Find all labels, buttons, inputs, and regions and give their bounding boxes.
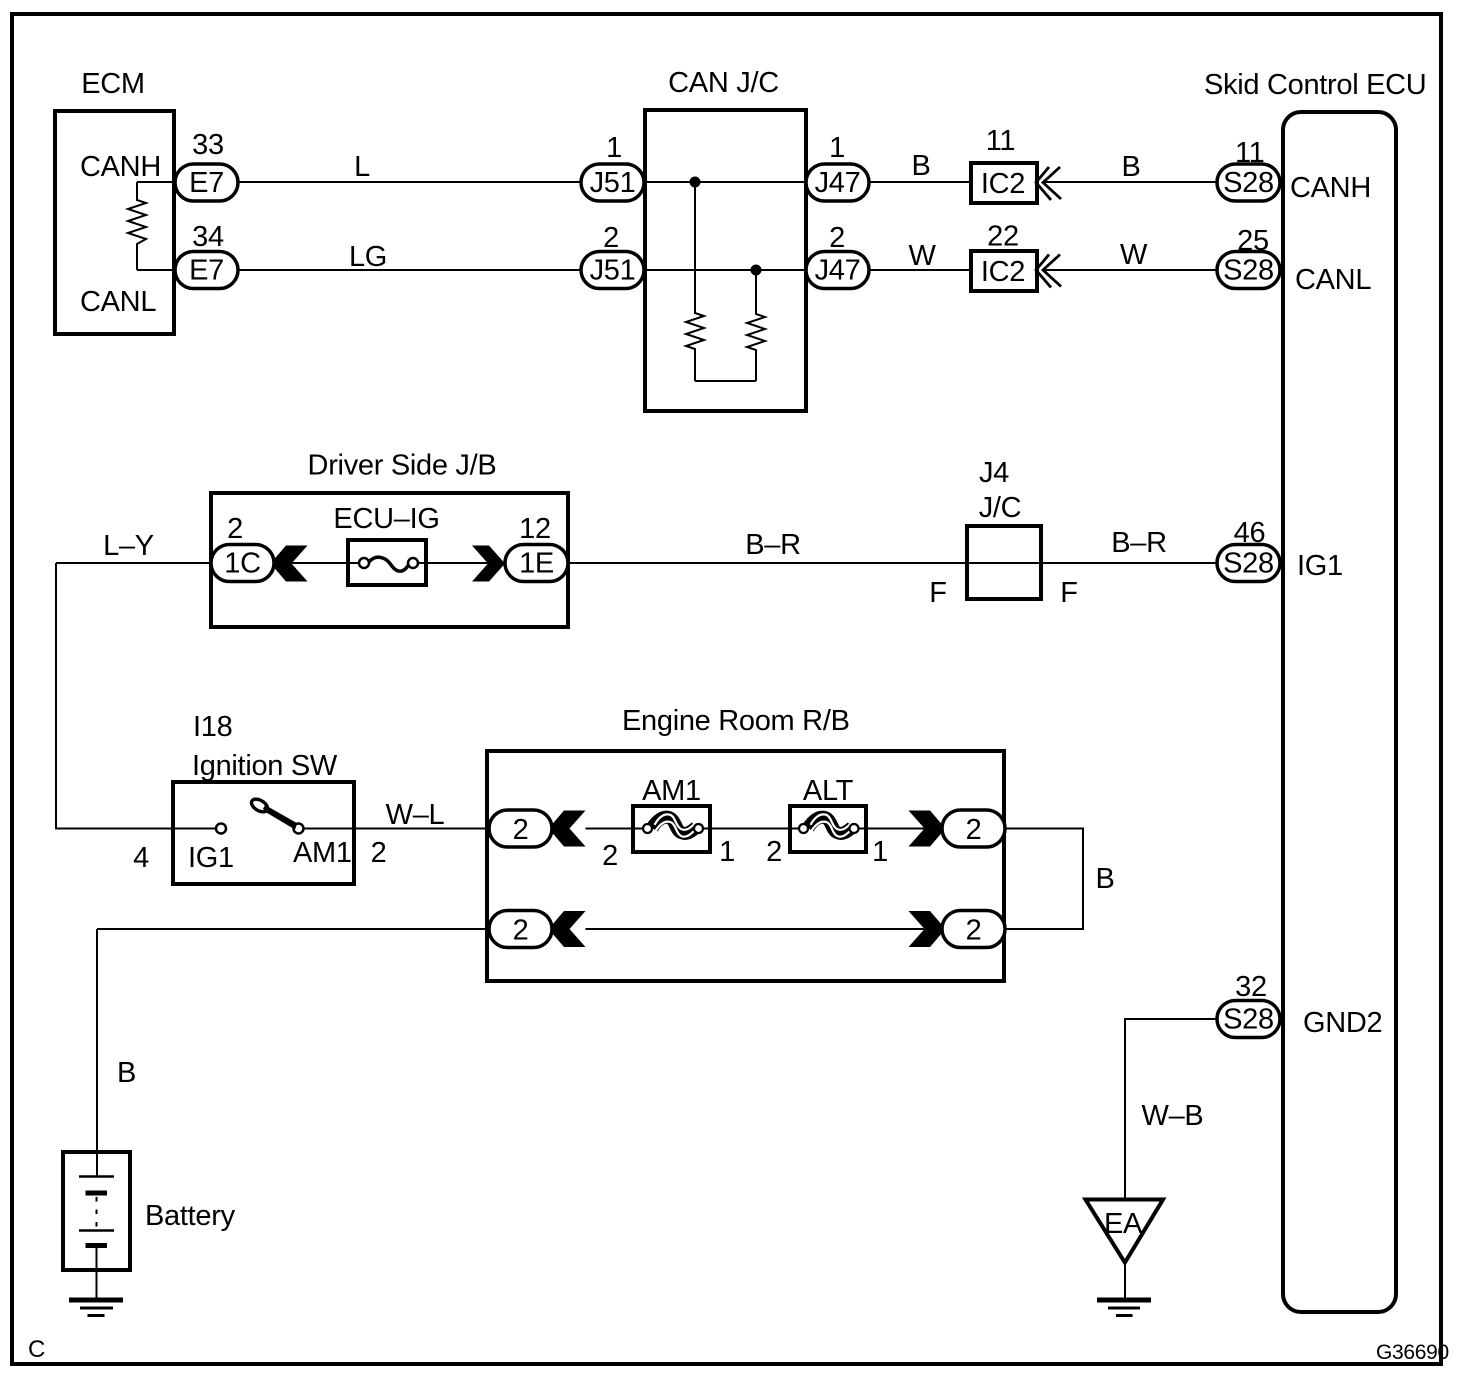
svg-text:25: 25 xyxy=(1237,225,1269,257)
svg-text:Driver Side J/B: Driver Side J/B xyxy=(308,450,497,482)
wire CANL: J51-2 through CAN J/C to J47-2 xyxy=(581,269,869,271)
wire from battery branch to row2 connector xyxy=(97,928,548,930)
svg-text:1: 1 xyxy=(829,132,845,164)
ground triangle EA xyxy=(1086,1200,1164,1263)
wire joining resistors xyxy=(695,380,756,382)
svg-text:E7: E7 xyxy=(189,255,224,287)
svg-text:AM1: AM1 xyxy=(293,837,352,869)
chevron at 1C (points left) xyxy=(271,546,308,582)
fusible link ALT element xyxy=(808,814,852,836)
connector 2 row1 right xyxy=(942,810,1005,847)
svg-text:2: 2 xyxy=(766,836,782,868)
Engine Room R/B box xyxy=(487,751,1004,981)
node: junction dot on CANH inside CAN J/C xyxy=(690,177,701,188)
wire B: down to battery xyxy=(96,929,98,1176)
chevron row2 left (points left) xyxy=(549,911,586,947)
J4 J/C box xyxy=(967,526,1041,599)
connector J51 pin 2 xyxy=(581,252,644,289)
svg-text:J47: J47 xyxy=(815,167,861,199)
svg-text:B: B xyxy=(1121,151,1140,183)
connector S28 pin 25 xyxy=(1217,252,1280,289)
svg-text:F: F xyxy=(929,577,946,609)
wire battery to ground xyxy=(96,1248,98,1298)
svg-text:2: 2 xyxy=(371,837,387,869)
battery dashed link xyxy=(96,1197,98,1229)
wire CANL: ECM E7-34 to J51-2 (LG) xyxy=(137,269,581,271)
wire AM1 to ALT xyxy=(703,828,800,830)
svg-text:S28: S28 xyxy=(1223,167,1274,199)
battery plate short thick bottom xyxy=(86,1243,108,1248)
svg-text:CANL: CANL xyxy=(1295,264,1371,296)
wire ALT to row1 right connector xyxy=(859,828,946,830)
wire L-Y vertical down to ignition switch xyxy=(56,563,216,829)
connector J47 pin 2 xyxy=(806,252,869,289)
connector E7 pin 34 xyxy=(175,252,238,289)
svg-text:J/C: J/C xyxy=(979,492,1022,524)
chevron row1 left (points left) xyxy=(549,811,586,847)
connector 1E pin 12 xyxy=(505,545,568,582)
wire W: J47-2 to IC2-22 xyxy=(869,269,971,271)
wire from fuse to S28-46 (B-R) xyxy=(417,562,1217,564)
svg-text:S28: S28 xyxy=(1223,255,1274,287)
svg-text:F: F xyxy=(1060,577,1077,609)
svg-text:J51: J51 xyxy=(590,255,636,287)
ignition switch I18 box xyxy=(173,782,354,884)
svg-text:12: 12 xyxy=(519,513,551,545)
wire W-B: S28-32 to EA ground xyxy=(1125,1019,1217,1198)
CAN J/C box xyxy=(645,110,806,411)
IC2 connector 11 box xyxy=(971,163,1037,203)
battery plate long bottom xyxy=(79,1229,114,1232)
ground symbol below EA xyxy=(1097,1298,1151,1303)
fusible link ALT terminal circles xyxy=(799,824,808,833)
wire CANH: ECM E7-33 to J51-1 (L) xyxy=(137,181,581,183)
svg-text:2: 2 xyxy=(966,915,982,947)
svg-text:IC2: IC2 xyxy=(981,256,1025,288)
wire B: row1 right to row2 right xyxy=(1005,829,1083,930)
svg-text:2: 2 xyxy=(227,513,243,545)
svg-text:E7: E7 xyxy=(189,167,224,199)
svg-text:CANH: CANH xyxy=(1290,172,1371,204)
svg-text:1: 1 xyxy=(719,836,735,868)
chevron row2 right (points right) xyxy=(909,911,946,947)
svg-text:32: 32 xyxy=(1235,971,1267,1003)
svg-text:2: 2 xyxy=(829,222,845,254)
switch lever xyxy=(264,807,297,826)
svg-text:IG1: IG1 xyxy=(188,842,234,874)
svg-text:LG: LG xyxy=(349,241,387,273)
svg-text:GND2: GND2 xyxy=(1303,1007,1382,1039)
svg-text:S28: S28 xyxy=(1223,1004,1274,1036)
svg-text:2: 2 xyxy=(603,222,619,254)
svg-text:B–R: B–R xyxy=(745,529,801,561)
svg-text:J47: J47 xyxy=(815,255,861,287)
svg-text:I18: I18 xyxy=(193,711,232,743)
wire B: J47-1 to IC2-11 xyxy=(869,181,971,183)
connector S28 pin 11 xyxy=(1217,164,1280,201)
svg-text:G36690: G36690 xyxy=(1376,1341,1449,1364)
fuse element xyxy=(369,557,409,571)
wire EA triangle to ground xyxy=(1124,1263,1126,1298)
wire row2 inside R/B xyxy=(586,928,925,930)
wire W: IC2-22 to S28-25 xyxy=(1043,269,1218,271)
svg-text:1: 1 xyxy=(606,132,622,164)
svg-text:Skid Control ECU: Skid Control ECU xyxy=(1204,69,1426,101)
terminating resistor inside ECM xyxy=(128,182,146,270)
connector 2 row2 right xyxy=(942,911,1005,948)
svg-text:B: B xyxy=(911,150,930,182)
svg-text:ECU–IG: ECU–IG xyxy=(333,503,439,535)
battery box xyxy=(63,1152,130,1270)
svg-text:L–Y: L–Y xyxy=(103,530,154,562)
svg-text:ALT: ALT xyxy=(803,775,854,807)
IC2-22 chevron xyxy=(1036,255,1061,288)
connector 2 row1 left xyxy=(489,810,552,847)
wire chevron to AM1 fuse xyxy=(586,828,645,830)
svg-text:J51: J51 xyxy=(590,167,636,199)
fuse terminal circle left xyxy=(359,558,369,568)
connector J51 pin 1 xyxy=(581,164,644,201)
wire CANH: J51-1 through CAN J/C to J47-1 xyxy=(581,181,869,183)
connector 2 row2 left xyxy=(489,911,552,948)
svg-text:C: C xyxy=(28,1336,45,1363)
svg-text:11: 11 xyxy=(986,125,1016,157)
IC2-11 chevron xyxy=(1036,167,1061,200)
switch contact AM1 xyxy=(294,824,304,834)
svg-text:2: 2 xyxy=(966,814,982,846)
svg-text:B–R: B–R xyxy=(1111,527,1167,559)
chevron row1 right (points right) xyxy=(909,811,946,847)
svg-text:33: 33 xyxy=(192,129,224,161)
connector J47 pin 1 xyxy=(806,164,869,201)
svg-text:EA: EA xyxy=(1104,1208,1143,1240)
svg-text:22: 22 xyxy=(987,221,1019,253)
svg-text:11: 11 xyxy=(1235,137,1265,169)
svg-text:W: W xyxy=(908,240,936,272)
IC2 connector 22 box xyxy=(971,251,1037,291)
connector S28 pin 32 xyxy=(1217,1001,1280,1038)
wire L-Y horizontal into Driver Side J/B xyxy=(56,562,358,564)
svg-text:CANL: CANL xyxy=(80,286,156,318)
svg-text:CANH: CANH xyxy=(80,151,161,183)
node: junction dot on CANL inside CAN J/C xyxy=(751,265,762,276)
fuse terminal circle right xyxy=(408,558,418,568)
connector E7 pin 33 xyxy=(175,164,238,201)
svg-text:Engine Room R/B: Engine Room R/B xyxy=(622,705,850,737)
svg-text:ECM: ECM xyxy=(81,68,145,100)
resistor 1 inside CAN J/C xyxy=(686,182,704,381)
svg-text:B: B xyxy=(117,1057,136,1089)
Driver Side J/B box xyxy=(211,493,568,627)
svg-text:4: 4 xyxy=(133,842,149,874)
svg-text:W–B: W–B xyxy=(1142,1100,1204,1132)
fusible link AM1 element xyxy=(652,814,696,836)
svg-text:AM1: AM1 xyxy=(642,775,701,807)
battery plate short thick xyxy=(86,1191,108,1196)
wire B: IC2-11 to S28-11 xyxy=(1043,181,1218,183)
switch contact IG1 xyxy=(216,824,226,834)
connector 1C pin 2 xyxy=(211,545,274,582)
chevron before 1E (points right) xyxy=(472,546,505,582)
resistor 2 inside CAN J/C xyxy=(747,270,765,381)
battery plate long top xyxy=(79,1175,114,1178)
svg-text:IC2: IC2 xyxy=(981,168,1025,200)
svg-text:S28: S28 xyxy=(1223,548,1274,580)
fusible link AM1 terminal circles xyxy=(643,824,652,833)
wire W-L: switch AM1 to Engine Room R/B xyxy=(304,828,549,830)
svg-text:1: 1 xyxy=(872,836,888,868)
ground symbol below battery xyxy=(69,1298,123,1303)
svg-text:IG1: IG1 xyxy=(1297,550,1343,582)
svg-text:L: L xyxy=(354,151,370,183)
svg-text:W: W xyxy=(1120,239,1148,271)
svg-text:B: B xyxy=(1095,863,1114,895)
svg-text:Ignition SW: Ignition SW xyxy=(192,750,338,782)
svg-text:46: 46 xyxy=(1234,517,1266,549)
svg-text:2: 2 xyxy=(513,814,529,846)
svg-text:J4: J4 xyxy=(979,457,1009,489)
svg-text:1C: 1C xyxy=(224,548,260,580)
Skid Control ECU box xyxy=(1283,112,1396,1312)
svg-text:1E: 1E xyxy=(519,548,554,580)
fusible link ALT box xyxy=(790,806,866,852)
connector S28 pin 46 xyxy=(1217,545,1280,582)
fusible link AM1 box xyxy=(633,806,710,852)
svg-text:2: 2 xyxy=(513,915,529,947)
svg-text:Battery: Battery xyxy=(145,1200,236,1232)
svg-text:CAN J/C: CAN J/C xyxy=(668,67,779,99)
ECM box xyxy=(55,111,174,334)
svg-text:34: 34 xyxy=(192,221,224,253)
svg-text:2: 2 xyxy=(602,840,618,872)
svg-text:W–L: W–L xyxy=(386,799,445,831)
fuse ECU-IG box xyxy=(348,540,426,585)
